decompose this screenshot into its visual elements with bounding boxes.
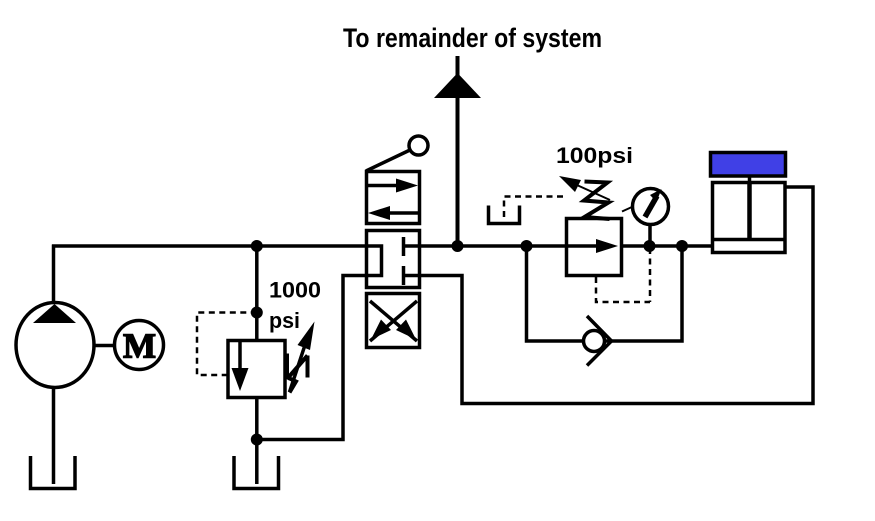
wire: vent pilot line (dashed) <box>504 197 566 218</box>
wire: reducing valve drain (dashed) <box>596 277 650 302</box>
pump P1 <box>16 303 94 388</box>
svg-text:1000: 1000 <box>269 278 321 303</box>
wire: manifold from reducing valve to cylinder <box>621 244 712 248</box>
directional valve DCV: lever arm <box>366 150 410 171</box>
svg-text:M: M <box>123 327 156 366</box>
tank T1 <box>31 456 76 489</box>
wire: relief pilot line (dashed) <box>197 313 257 376</box>
wire: DCV tank return run <box>257 276 367 440</box>
wire: relief valve riser <box>255 246 259 341</box>
pressure reducing valve PRV1 <box>567 219 622 276</box>
node: relief branch junction <box>251 240 263 252</box>
relief valve spring <box>287 354 308 393</box>
wire: drain sense below main line (dashed) <box>649 248 652 302</box>
wire: system branch riser <box>456 56 460 246</box>
node: system branch junction <box>452 240 464 252</box>
wire: pump suction line <box>52 388 56 485</box>
node: pilot tap junction <box>251 307 263 319</box>
wire: relief valve to tank <box>255 398 259 485</box>
node: tank return junction <box>251 434 263 446</box>
wire: pump riser <box>52 245 56 305</box>
directional valve DCV: lever knob <box>409 136 428 155</box>
svg-text:100psi: 100psi <box>556 143 633 168</box>
wire: bypass right segment <box>605 246 683 341</box>
wire: main pressure manifold line <box>52 244 367 248</box>
wire: gauge stem <box>648 223 652 246</box>
node: gauge junction <box>644 240 656 252</box>
cylinder piston <box>747 183 752 240</box>
DCV box B: blocked port stubs <box>404 244 420 248</box>
directional valve DCV: position box B (centre, working) <box>367 231 420 288</box>
relief valve adjustment arrow <box>290 345 306 392</box>
vent reservoir (drain) <box>489 206 520 224</box>
cylinder rod stub <box>748 176 752 183</box>
node: bypass junction right <box>676 240 688 252</box>
reducing valve spring <box>584 182 610 220</box>
wire: bypass down left <box>527 246 584 341</box>
relief valve RV1 <box>228 341 285 398</box>
wire: manifold from DCV to reducing valve <box>420 244 569 248</box>
gauge G1 <box>633 189 669 225</box>
reducing valve adjustment arrow <box>568 181 610 200</box>
svg-text:psi: psi <box>269 308 300 333</box>
directional valve DCV: position box C (crossed arrows) <box>367 294 420 348</box>
load block (blue) <box>711 153 786 177</box>
check valve CV1 <box>584 331 605 352</box>
directional valve DCV: position box A (arrows) <box>367 172 420 224</box>
motor M <box>115 321 164 370</box>
wire: DCV rod-end run <box>420 187 814 404</box>
DCV box B: left ports U connector <box>367 246 382 276</box>
tank T2 <box>234 456 279 489</box>
wire: pump-motor shaft link <box>94 344 115 348</box>
arrow to remainder of system <box>434 73 481 98</box>
svg-text:To remainder of system: To remainder of system <box>343 23 602 53</box>
cylinder CYL1 body <box>713 183 786 253</box>
node: check valve bypass junction left <box>521 240 533 252</box>
